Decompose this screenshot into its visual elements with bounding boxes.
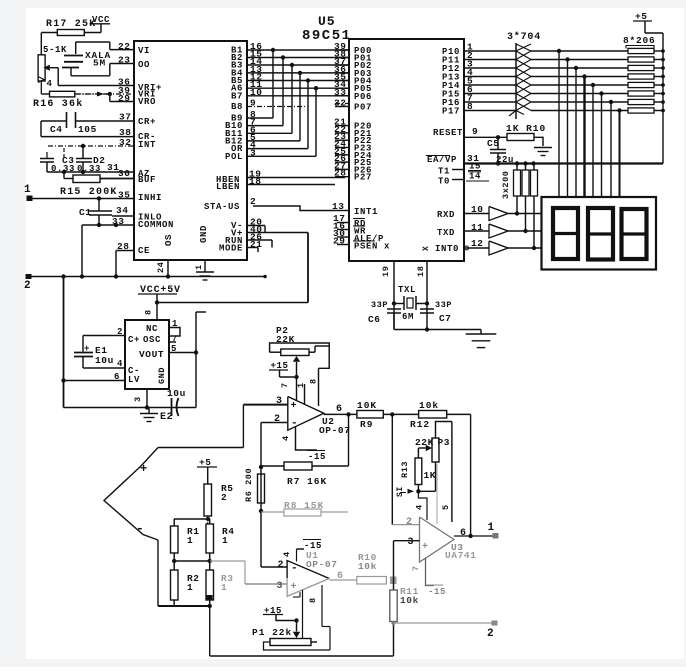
svg-text:T0: T0 bbox=[438, 177, 450, 187]
svg-text:24: 24 bbox=[156, 262, 166, 273]
resistor R4 bbox=[206, 524, 214, 553]
svg-text:8*206: 8*206 bbox=[623, 35, 656, 46]
svg-text:4: 4 bbox=[282, 551, 292, 557]
svg-text:R12: R12 bbox=[410, 419, 430, 430]
svg-text:0.33: 0.33 bbox=[51, 164, 75, 174]
svg-text:33P: 33P bbox=[435, 300, 452, 310]
voltage converter U6 7660 body bbox=[125, 320, 169, 389]
svg-text:+5: +5 bbox=[199, 457, 212, 468]
crystal ground wire bbox=[393, 313, 395, 330]
svg-text:5: 5 bbox=[441, 504, 451, 510]
bridge bottom row wire bbox=[173, 600, 175, 606]
resistor R1 bbox=[171, 526, 179, 553]
svg-text:BUF: BUF bbox=[138, 175, 156, 185]
bus wire node 2 horizontal bbox=[26, 274, 32, 279]
svg-text:R6 200: R6 200 bbox=[244, 468, 254, 502]
svg-text:33P: 33P bbox=[371, 300, 388, 310]
svg-text:POL: POL bbox=[225, 152, 243, 162]
svg-text:2: 2 bbox=[487, 628, 494, 640]
svg-text:1: 1 bbox=[187, 535, 193, 546]
svg-text:1: 1 bbox=[221, 582, 227, 593]
svg-text:INHI: INHI bbox=[138, 193, 162, 203]
feedback vertical from U2 output bbox=[348, 414, 350, 466]
svg-text:C+: C+ bbox=[128, 335, 140, 345]
svg-text:105: 105 bbox=[78, 124, 97, 135]
svg-text:LBEN: LBEN bbox=[216, 182, 240, 192]
wire R17 to potentiometer bbox=[40, 33, 42, 55]
svg-text:7: 7 bbox=[411, 565, 421, 571]
digit driver transistor 3 bbox=[489, 241, 508, 255]
svg-text:29: 29 bbox=[118, 93, 131, 104]
wire R9 junction down to out-2 node bbox=[393, 541, 395, 590]
resistor R6 200 bbox=[258, 474, 265, 503]
svg-text:P27: P27 bbox=[354, 173, 372, 183]
svg-text:C1: C1 bbox=[79, 207, 92, 218]
svg-text:B8: B8 bbox=[231, 102, 243, 112]
wire VCC to converter bbox=[156, 294, 158, 320]
op-amp U2 OP-07 triangle bbox=[288, 397, 324, 431]
bridge middle row wire bbox=[173, 553, 175, 561]
capacitor C2 0.33 bbox=[63, 148, 65, 158]
op-amp U3 UA741 triangle bbox=[420, 517, 455, 562]
resistor R13 1K bbox=[417, 448, 419, 458]
resistor R5 bbox=[207, 467, 209, 484]
svg-text:R15 200K: R15 200K bbox=[60, 187, 118, 198]
svg-text:OS: OS bbox=[164, 234, 174, 246]
feedback wire R12 to U3 output bbox=[470, 414, 472, 536]
svg-text:8: 8 bbox=[308, 597, 318, 603]
svg-text:B7: B7 bbox=[231, 91, 243, 101]
svg-text:10k: 10k bbox=[358, 561, 377, 572]
display module body bbox=[542, 197, 657, 270]
capacitor C4 105 box bbox=[41, 120, 67, 122]
svg-text:8: 8 bbox=[467, 101, 473, 112]
svg-text:-: - bbox=[291, 418, 298, 430]
svg-text:4: 4 bbox=[281, 435, 291, 441]
svg-text:1: 1 bbox=[194, 264, 204, 270]
resistor network 8*206 resistors bbox=[628, 48, 654, 53]
svg-text:1K R10: 1K R10 bbox=[506, 123, 546, 134]
svg-text:1: 1 bbox=[222, 535, 228, 546]
svg-text:3: 3 bbox=[408, 537, 415, 548]
resistor R11 10k bbox=[390, 590, 397, 622]
svg-text:5M: 5M bbox=[93, 58, 106, 69]
svg-text:RXD: RXD bbox=[437, 210, 455, 220]
ADC IC U4 body bbox=[134, 41, 247, 260]
svg-text:8: 8 bbox=[309, 378, 319, 384]
svg-text:6: 6 bbox=[460, 528, 467, 539]
thermocouple sensor bracket bbox=[104, 448, 158, 541]
digit driver transistor 2 bbox=[489, 224, 508, 238]
svg-text:3: 3 bbox=[277, 581, 284, 592]
display digit 1 bbox=[553, 208, 578, 259]
svg-text:18: 18 bbox=[249, 176, 262, 187]
svg-text:1: 1 bbox=[187, 582, 193, 593]
svg-text:R13: R13 bbox=[400, 461, 410, 478]
svg-text:0.33: 0.33 bbox=[77, 164, 101, 174]
svg-text:R7 16K: R7 16K bbox=[287, 476, 327, 487]
svg-text:R16 36k: R16 36k bbox=[33, 98, 83, 110]
svg-text:4: 4 bbox=[415, 504, 425, 510]
feedback row R7 bbox=[261, 465, 284, 467]
svg-text:10K: 10K bbox=[357, 400, 377, 411]
svg-text:34: 34 bbox=[116, 205, 129, 216]
P3 wiper arrow bbox=[426, 445, 432, 451]
svg-text:GND: GND bbox=[199, 225, 209, 243]
display digit 3 bbox=[622, 209, 647, 259]
svg-text:INT0: INT0 bbox=[435, 244, 459, 254]
svg-text:VOUT: VOUT bbox=[139, 349, 164, 360]
svg-text:RESET: RESET bbox=[433, 128, 463, 138]
svg-text:NC: NC bbox=[146, 324, 158, 334]
bottom rail of converter bbox=[64, 407, 197, 409]
svg-text:TXD: TXD bbox=[437, 228, 455, 238]
svg-text:18: 18 bbox=[416, 266, 426, 277]
wire sensor mid to U1 pin 3 bbox=[244, 561, 246, 584]
svg-text:3x200: 3x200 bbox=[501, 170, 511, 199]
svg-text:2: 2 bbox=[278, 560, 285, 571]
svg-text:1K: 1K bbox=[424, 470, 437, 481]
digit driver transistor 1 bbox=[489, 207, 508, 221]
svg-text:+: + bbox=[140, 462, 148, 476]
svg-text:14: 14 bbox=[469, 172, 481, 182]
resistor R2 bbox=[171, 570, 179, 600]
capacitor C3 0.33 and node wiring bbox=[82, 146, 84, 158]
wire bridge to bottom bus bbox=[209, 606, 211, 656]
svg-text:2: 2 bbox=[221, 492, 227, 503]
svg-text:22: 22 bbox=[118, 41, 131, 52]
op-amp U1 OP-07 triangle bbox=[287, 561, 329, 579]
svg-text:R9: R9 bbox=[360, 419, 373, 430]
svg-text:10u: 10u bbox=[167, 388, 186, 399]
left vertical supply wire bbox=[63, 277, 65, 408]
svg-text:X: X bbox=[422, 246, 431, 251]
svg-text:CE: CE bbox=[138, 246, 150, 256]
svg-text:-15: -15 bbox=[304, 541, 322, 551]
bottom bus wire bbox=[210, 655, 394, 657]
svg-text:C7: C7 bbox=[439, 313, 452, 324]
ground at R10 bbox=[534, 147, 552, 149]
svg-text:GND: GND bbox=[157, 367, 167, 384]
crystal ground symbol bbox=[480, 330, 482, 335]
svg-text:PSEN x: PSEN x bbox=[354, 242, 390, 252]
svg-text:-: - bbox=[136, 521, 144, 536]
driver array symbol bbox=[515, 43, 517, 119]
svg-text:10k: 10k bbox=[419, 400, 439, 411]
svg-text:LV: LV bbox=[128, 375, 140, 385]
resistor R7 16K bbox=[284, 462, 312, 470]
resistor R15 200K bbox=[73, 175, 100, 183]
svg-text:P17: P17 bbox=[442, 107, 460, 117]
bridge top row wire bbox=[174, 518, 209, 520]
svg-text:R17 25K: R17 25K bbox=[46, 19, 96, 30]
display segment bus vertical wires bbox=[558, 51, 560, 197]
svg-text:6M: 6M bbox=[402, 312, 414, 322]
svg-text:TXL: TXL bbox=[398, 285, 416, 295]
display digit 2 bbox=[588, 208, 613, 260]
svg-text:6: 6 bbox=[336, 404, 343, 415]
wire bus to INLO bbox=[81, 225, 83, 277]
P1 wiper arrow bbox=[296, 621, 298, 632]
svg-text:2: 2 bbox=[274, 414, 281, 425]
svg-text:21: 21 bbox=[250, 239, 263, 250]
resistor R3 bbox=[206, 570, 214, 600]
svg-text:C4: C4 bbox=[50, 124, 63, 135]
svg-text:+: + bbox=[291, 401, 298, 412]
svg-text:T1: T1 bbox=[438, 167, 450, 177]
svg-text:+: + bbox=[422, 542, 429, 553]
svg-text:1: 1 bbox=[488, 522, 495, 534]
svg-text:VI: VI bbox=[138, 46, 150, 56]
svg-text:22K: 22K bbox=[415, 437, 434, 448]
resistor R16 36k bbox=[50, 91, 75, 97]
svg-text:COMMON: COMMON bbox=[138, 220, 174, 230]
svg-text:P06: P06 bbox=[354, 92, 372, 102]
svg-text:OO: OO bbox=[138, 60, 150, 70]
svg-text:10u: 10u bbox=[95, 355, 114, 366]
svg-text:OP-07: OP-07 bbox=[319, 425, 351, 436]
svg-text:-15: -15 bbox=[428, 587, 446, 597]
svg-text:VRO: VRO bbox=[138, 97, 156, 107]
faint wire near P3 column bbox=[436, 464, 438, 524]
svg-text:P1 22k: P1 22k bbox=[252, 627, 292, 638]
MCU 89C51 body bbox=[349, 39, 464, 261]
svg-text:EA/VP: EA/VP bbox=[427, 155, 457, 165]
wire sensor plus to op-amp U2 bbox=[158, 447, 243, 449]
svg-text:4: 4 bbox=[47, 79, 53, 89]
svg-text:30: 30 bbox=[118, 168, 131, 179]
svg-text:OP-07: OP-07 bbox=[306, 559, 338, 570]
svg-text:7: 7 bbox=[280, 382, 290, 388]
driver output rows to resistor network bbox=[531, 50, 628, 52]
svg-text:89C51: 89C51 bbox=[302, 28, 352, 44]
svg-text:1: 1 bbox=[24, 184, 31, 196]
svg-text:C6: C6 bbox=[368, 314, 381, 325]
EA line junction dots bbox=[496, 161, 500, 165]
svg-text:3*704: 3*704 bbox=[507, 31, 541, 43]
svg-text:5-1K: 5-1K bbox=[43, 45, 67, 55]
svg-text:INT1: INT1 bbox=[354, 207, 378, 217]
svg-text:10k: 10k bbox=[400, 595, 419, 606]
svg-text:SI: SI bbox=[396, 486, 405, 497]
svg-text:STA-US: STA-US bbox=[204, 202, 240, 212]
svg-text:CR+: CR+ bbox=[138, 117, 156, 127]
svg-text:-: - bbox=[291, 563, 298, 575]
svg-text:OSC: OSC bbox=[143, 335, 161, 345]
svg-text:28: 28 bbox=[334, 168, 347, 179]
interconnect vertical wires with junction dots bbox=[272, 50, 274, 118]
wire R9 junction to U3 pin 2 bbox=[391, 414, 393, 524]
svg-text:MODE: MODE bbox=[219, 244, 243, 254]
svg-text:P07: P07 bbox=[354, 103, 372, 113]
svg-text:9: 9 bbox=[472, 126, 478, 137]
svg-text:3: 3 bbox=[133, 396, 143, 402]
svg-text:INT: INT bbox=[138, 140, 156, 150]
svg-text:2: 2 bbox=[24, 280, 31, 292]
output terminal 2 wire bbox=[394, 622, 496, 624]
svg-text:19: 19 bbox=[381, 266, 391, 277]
svg-text:8: 8 bbox=[144, 309, 154, 315]
ground at E2 bbox=[148, 408, 150, 414]
svg-text:-15: -15 bbox=[308, 452, 326, 462]
svg-text:2: 2 bbox=[406, 517, 413, 528]
svg-text:+: + bbox=[291, 582, 298, 593]
svg-text:U5: U5 bbox=[318, 14, 336, 29]
svg-text:UA741: UA741 bbox=[445, 550, 477, 561]
